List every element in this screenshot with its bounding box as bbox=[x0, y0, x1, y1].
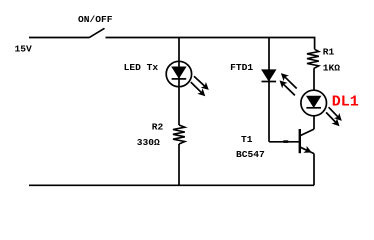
FTD1 incident light arrow 2 bbox=[280, 80, 295, 95]
wire: R1 bottom to DL1 bbox=[313, 69, 315, 91]
svg-text:330Ω: 330Ω bbox=[137, 137, 160, 148]
wire: DL1 bottom to collector bbox=[313, 116, 315, 129]
svg-text:R2: R2 bbox=[152, 122, 164, 133]
junction mark on base lead bbox=[283, 140, 288, 143]
LED Tx emission arrow 1 bbox=[194, 76, 209, 90]
svg-text:ON/OFF: ON/OFF bbox=[78, 14, 113, 25]
LED DL1 cathode bar bbox=[306, 107, 321, 109]
svg-text:FTD1: FTD1 bbox=[230, 62, 253, 73]
resistor R1 zigzag bbox=[307, 49, 319, 68]
wire: top rail from switch to R1 bbox=[106, 38, 315, 50]
wire: 15V lead to switch bbox=[29, 37, 89, 39]
svg-text:BC547: BC547 bbox=[236, 149, 265, 160]
FTD1 incident light arrow 1 bbox=[281, 73, 297, 88]
wire: base lead from FTD1 to T1 base bbox=[269, 141, 299, 143]
wire: emitter to bottom rail bbox=[313, 154, 315, 186]
LED DL1 anode triangle bbox=[307, 96, 321, 107]
LED Tx circle bbox=[166, 61, 191, 86]
LED Tx cathode bar bbox=[172, 78, 187, 80]
LED DL1 circle bbox=[301, 90, 327, 116]
transistor T1 emitter lead bbox=[301, 147, 315, 153]
svg-text:LED Tx: LED Tx bbox=[124, 62, 159, 73]
LED Tx anode triangle bbox=[172, 67, 186, 78]
switch SW1 ON/OFF lever bbox=[89, 28, 105, 37]
svg-text:R1: R1 bbox=[323, 46, 335, 57]
transistor T1 base bar bbox=[299, 129, 301, 153]
wire: R2 bottom to ground rail bbox=[178, 144, 180, 185]
transistor T1 collector lead bbox=[301, 129, 315, 135]
svg-text:DL1: DL1 bbox=[332, 94, 359, 111]
svg-text:T1: T1 bbox=[241, 134, 253, 145]
transistor T1 emitter arrowhead bbox=[303, 146, 311, 153]
DL1 emission arrow 1 bbox=[329, 107, 342, 121]
photodiode FTD1 anode triangle bbox=[262, 70, 276, 81]
LED Tx emission arrow 2 bbox=[191, 82, 206, 96]
resistor R2 zigzag bbox=[173, 125, 185, 144]
wire: LED Tx column (top rail to R2) bbox=[178, 38, 180, 126]
wire: bottom rail bbox=[29, 184, 314, 186]
svg-text:15V: 15V bbox=[15, 44, 33, 55]
photodiode FTD1 cathode bar bbox=[262, 81, 277, 83]
wire: FTD1 column (top rail to base corner) bbox=[268, 38, 270, 142]
DL1 emission arrow 2 bbox=[326, 112, 339, 126]
svg-text:1KΩ: 1KΩ bbox=[323, 62, 341, 73]
